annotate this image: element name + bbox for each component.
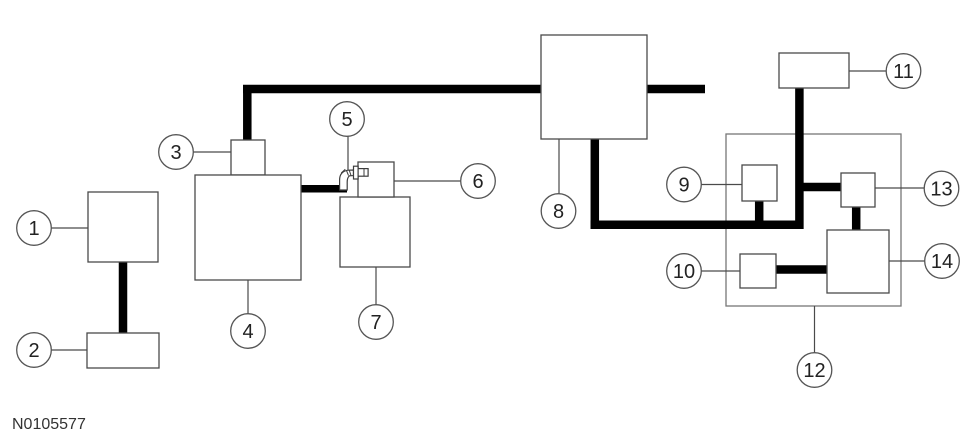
hose/tube (thick line) vertical drop from main line to box 3 (243, 85, 252, 140)
component box 2 (87, 333, 159, 368)
leader line callout 11 (849, 70, 886, 72)
component box 8 (541, 35, 647, 139)
leader line callout 6 (394, 180, 461, 182)
hose/tube (thick line) between box 1 and box 2 (119, 260, 128, 334)
hose/tube (thick line) vertical from bottom of box 8 (591, 139, 600, 229)
leader line callout 4 (247, 280, 249, 314)
leader line callout 2 (51, 349, 87, 351)
svg-text:10: 10 (673, 261, 695, 283)
hose/tube (thick line) stub from box 13 down to box 14 (852, 206, 861, 231)
leader line callout 3 (193, 151, 231, 153)
component box 4 (195, 175, 301, 280)
callout circle 14 (925, 244, 960, 279)
callout circle 2 (17, 333, 52, 368)
leader line callout 7 (375, 267, 377, 305)
leader line callout 12 (814, 306, 816, 353)
svg-text:11: 11 (893, 61, 914, 83)
svg-text:4: 4 (242, 321, 253, 343)
component box 9 (742, 165, 777, 201)
svg-text:13: 13 (930, 179, 952, 201)
callout circle 10 (667, 254, 702, 289)
leader line callout 5 (347, 136, 349, 170)
leader line callout 9 (701, 184, 742, 186)
leader line callout 8 (558, 139, 560, 194)
module enclosure box 12 (outer dashed-thin frame) (726, 134, 901, 306)
callout circle 8 (541, 194, 576, 229)
component box 13 (841, 173, 875, 207)
svg-text:9: 9 (678, 175, 689, 197)
callout circle 12 (797, 353, 832, 388)
hose/tube (thick line) from box 4 to elbow fitting (301, 185, 347, 193)
svg-text:1: 1 (28, 218, 39, 240)
svg-text:8: 8 (553, 201, 564, 223)
svg-text:N0105577: N0105577 (12, 416, 86, 433)
svg-text:2: 2 (28, 340, 39, 362)
svg-text:6: 6 (472, 171, 483, 193)
component box 3 (231, 140, 265, 175)
svg-text:5: 5 (341, 109, 352, 131)
component box 7 (340, 197, 410, 267)
hose/tube (thick line) long horizontal run into module (591, 221, 804, 230)
callout circle 11 (886, 54, 921, 89)
callout circle 9 (667, 167, 702, 202)
svg-text:3: 3 (170, 142, 181, 164)
svg-text:14: 14 (931, 251, 953, 273)
leader line callout 10 (701, 270, 740, 272)
callout circle 1 (17, 211, 52, 246)
svg-text:7: 7 (370, 312, 381, 334)
leader line callout 13 (875, 187, 924, 189)
component box 1 (88, 192, 158, 262)
hose/tube (thick line) main horizontal run across top through box 8 (243, 85, 705, 94)
leader line callout 1 (51, 227, 88, 229)
hose/tube (thick line) stub from box 10 to box 14 (775, 265, 828, 274)
callout circle 5 (330, 102, 365, 137)
callout circle 7 (359, 305, 394, 340)
hose/tube (thick line) stub from box 9 down to horizontal run (755, 200, 764, 225)
callout circle 3 (159, 135, 194, 170)
svg-text:12: 12 (803, 360, 825, 382)
elbow fitting item 5 (hose connector into box 6) (340, 166, 369, 190)
callout circle 13 (924, 171, 959, 206)
leader line callout 14 (889, 260, 925, 262)
callout circle 6 (461, 164, 496, 199)
component box 10 (740, 254, 776, 288)
component box 6 (358, 162, 394, 197)
hose/tube (thick line) stub from vertical run to box 13 (799, 183, 842, 192)
callout circle 4 (231, 314, 266, 349)
hose/tube (thick line) vertical from box 11 down into module (795, 88, 804, 229)
component box 11 (779, 53, 849, 88)
component box 14 (827, 230, 889, 293)
